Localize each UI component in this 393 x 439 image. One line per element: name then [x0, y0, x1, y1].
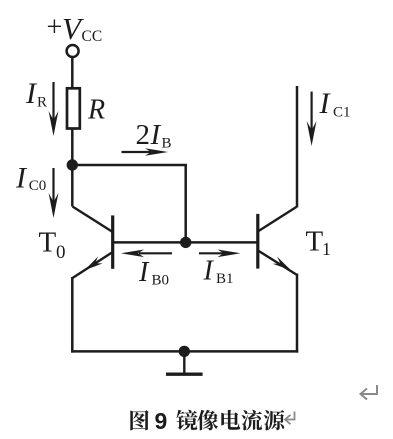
svg-text:I: I	[150, 119, 162, 151]
label IC1	[319, 87, 351, 121]
wire T1 collector vertical	[296, 86, 299, 208]
label T1	[306, 226, 332, 260]
label IB0	[138, 257, 169, 289]
svg-text:B: B	[162, 136, 172, 152]
caption character 源	[264, 410, 285, 430]
label T0	[39, 227, 66, 264]
caption character 图	[130, 410, 148, 430]
wire node A down to T0 collector	[71, 165, 74, 207]
transistor T0 collector diagonal	[73, 207, 113, 233]
resistor R	[67, 88, 80, 128]
svg-text:+: +	[47, 12, 63, 43]
transistor Q T0 base bar	[111, 215, 114, 268]
svg-text:I: I	[319, 87, 332, 120]
svg-text:R: R	[37, 95, 47, 111]
transistor Q T1 base bar	[256, 214, 259, 269]
caption character 像	[197, 410, 218, 430]
transistor T0 emitter arrowhead	[82, 256, 103, 273]
svg-text:B1: B1	[216, 271, 234, 287]
svg-text:CC: CC	[82, 28, 103, 45]
transistor T1 emitter arrowhead	[273, 257, 294, 274]
label 2IB	[136, 119, 172, 152]
wire bottom rail	[71, 350, 298, 353]
wire resistor to node A	[71, 129, 74, 166]
paragraph return mark (gray)	[361, 385, 378, 400]
svg-text:T: T	[39, 227, 57, 259]
wire VCC terminal to resistor	[71, 57, 74, 88]
wire top loop node A to vertical drop	[72, 165, 185, 242]
transistor T1 collector diagonal	[258, 207, 297, 232]
caption character 电	[221, 410, 240, 430]
junction node A below resistor	[67, 159, 78, 170]
svg-text:T: T	[306, 226, 324, 258]
current arrow 2IB	[122, 148, 169, 156]
svg-text:0: 0	[56, 242, 66, 263]
ground symbol	[166, 351, 203, 374]
svg-text:I: I	[203, 256, 215, 287]
current arrow IB0	[121, 250, 172, 258]
caption character 镜	[176, 410, 197, 431]
current arrow IR	[49, 82, 59, 136]
junction node C on bottom rail	[179, 346, 190, 357]
wire T0 emitter down to bottom rail	[71, 277, 74, 353]
label IC0	[15, 162, 46, 195]
label IB1	[203, 256, 234, 288]
current arrow IC0	[49, 168, 59, 218]
transistor T0 emitter diagonal	[73, 252, 113, 278]
svg-text:9: 9	[155, 408, 168, 434]
wire T1 emitter down to bottom rail	[296, 274, 299, 353]
label +VCC	[47, 11, 103, 46]
svg-text:2: 2	[136, 119, 151, 151]
svg-text:C0: C0	[29, 178, 47, 194]
svg-text:I: I	[138, 257, 150, 288]
junction node B on base rail	[180, 237, 191, 248]
svg-text:R: R	[87, 95, 105, 126]
svg-text:1: 1	[322, 239, 331, 259]
svg-text:B0: B0	[152, 273, 170, 289]
transistor T1 emitter diagonal	[258, 250, 297, 274]
current arrow IC1	[307, 92, 317, 146]
terminal +VCC circle	[67, 45, 79, 57]
svg-text:C1: C1	[333, 105, 351, 121]
caption return mark small (gray)	[285, 412, 295, 425]
caption character 流	[241, 410, 262, 431]
current arrow IB1	[199, 250, 241, 258]
label IR	[25, 77, 47, 111]
wire base rail T0 to T1	[114, 241, 257, 244]
svg-text:I: I	[15, 162, 28, 195]
